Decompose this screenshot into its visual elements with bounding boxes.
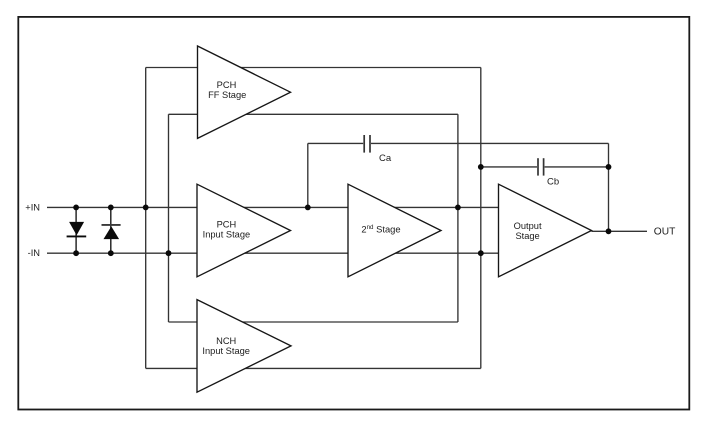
op-amp PCH input stage triangle bbox=[197, 184, 291, 277]
wire: Cb row right segment y=166.9 bbox=[545, 166, 609, 168]
svg-text:FF Stage: FF Stage bbox=[208, 90, 246, 100]
label PCH FF Stage bbox=[208, 80, 246, 100]
capacitor Ca bbox=[364, 135, 370, 153]
svg-text:Cb: Cb bbox=[547, 177, 559, 188]
wire: inner loop left vertical x=168.5 bbox=[168, 114, 170, 322]
wire: outer loop left vertical x=146 bbox=[145, 68, 147, 369]
junction dot +IN / outer loop bbox=[143, 205, 149, 211]
label PCH Input Stage bbox=[203, 219, 251, 239]
junction dot +IN / diode D2 bbox=[108, 205, 114, 211]
wire: outer loop top (+IN feed to FF and NCH), y=67.5 bbox=[146, 67, 481, 69]
wire: inner loop right vertical x=458 bbox=[457, 114, 459, 322]
diode D2 (pointing up) bbox=[102, 207, 121, 253]
junction dot +IN / Ca tap bbox=[305, 205, 311, 211]
wire: -IN rail y=253.2 bbox=[47, 252, 499, 254]
junction dot lower row / outer loop bbox=[478, 250, 484, 256]
junction dot Cb right bbox=[606, 164, 612, 170]
wire: Ca tap vertical x=308 bbox=[307, 143, 309, 207]
wire: Ca row right segment y=143.4 bbox=[371, 142, 609, 144]
junction dot 2nd-stage row / inner loop bbox=[455, 205, 461, 211]
junction dot -IN / diode D1 bbox=[73, 250, 79, 256]
svg-text:+IN: +IN bbox=[25, 202, 40, 212]
wire: right column vertical x=608.5 bbox=[608, 143, 610, 231]
svg-text:NCH: NCH bbox=[216, 336, 236, 346]
svg-text:OUT: OUT bbox=[654, 226, 676, 237]
label Output Stage bbox=[514, 221, 542, 241]
op-amp 2nd stage triangle bbox=[348, 184, 441, 277]
op-amp output stage triangle bbox=[499, 184, 592, 277]
svg-text:Input Stage: Input Stage bbox=[202, 346, 250, 356]
capacitor Cb bbox=[538, 158, 544, 175]
svg-text:PCH: PCH bbox=[217, 219, 237, 229]
wire: output line to OUT bbox=[592, 230, 648, 232]
op-amp FF stage triangle bbox=[198, 46, 291, 138]
svg-text:PCH: PCH bbox=[217, 80, 237, 90]
wire: +IN rail y=207.4 bbox=[47, 206, 499, 208]
junction dot Cb left bbox=[478, 164, 484, 170]
svg-text:Output: Output bbox=[514, 221, 542, 231]
wire: Cb row left segment y=166.9 bbox=[481, 166, 537, 168]
junction dot output node bbox=[606, 228, 612, 234]
wire: inner loop top (-IN feed), y=114.3 bbox=[169, 113, 458, 115]
svg-text:-IN: -IN bbox=[28, 248, 40, 258]
junction dot -IN / inner loop bbox=[166, 250, 172, 256]
wire: outer loop bottom y=368.4 bbox=[146, 367, 481, 369]
op-amp NCH input stage triangle bbox=[197, 300, 291, 393]
svg-text:Stage: Stage bbox=[515, 231, 539, 241]
junction dot -IN / diode D2 bbox=[108, 250, 114, 256]
wire: outer loop right vertical x=481 bbox=[480, 68, 482, 369]
svg-text:Input Stage: Input Stage bbox=[203, 230, 251, 240]
wire: Ca row left segment y=143.4 bbox=[308, 142, 363, 144]
junction dot +IN / diode D1 bbox=[73, 205, 79, 211]
wire: inner loop bottom y=322 bbox=[169, 321, 458, 323]
diode D1 (pointing down) bbox=[67, 207, 87, 253]
svg-text:Ca: Ca bbox=[379, 153, 392, 164]
label NCH Input Stage bbox=[202, 336, 250, 356]
